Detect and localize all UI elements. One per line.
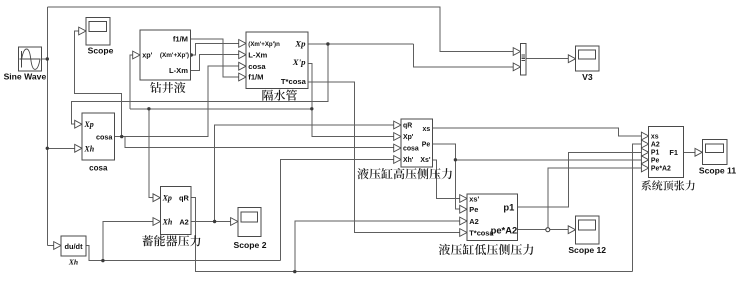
- junction A2 output: [213, 220, 216, 223]
- svg-text:Xs': Xs': [420, 157, 430, 164]
- wire Xp down-left to cosa Xp input: [71, 44, 328, 124]
- svg-text:cosa: cosa: [89, 163, 108, 172]
- label 液压缸高压侧压力: [357, 168, 452, 179]
- wire qR down and along bottom: [191, 198, 632, 272]
- arrowhead high-pressure qR input: [394, 121, 401, 129]
- arrowhead Scope 11 input: [695, 148, 702, 156]
- svg-text:Sine Wave: Sine Wave: [4, 72, 47, 82]
- svg-text:Pe: Pe: [651, 157, 660, 164]
- svg-text:cosa: cosa: [248, 62, 266, 71]
- svg-text:(Xm'+Xp')n: (Xm'+Xp')n: [248, 41, 280, 48]
- arrowhead riser input 1: [239, 40, 246, 48]
- arrowhead accumulator Xh input: [153, 218, 160, 226]
- mux block: [521, 43, 526, 75]
- arrowhead V3 input: [568, 55, 575, 63]
- junction Pe branch: [454, 158, 457, 161]
- svg-text:Xp: Xp: [162, 194, 172, 203]
- svg-text:Scope 11: Scope 11: [699, 166, 736, 176]
- svg-text:qR: qR: [403, 123, 412, 130]
- wire Xp-prime branch left: [130, 108, 312, 110]
- arrowhead Scope 2 input: [231, 218, 238, 226]
- scope block V3: [576, 46, 600, 71]
- wire A2 riser to high-pressure qR input: [215, 125, 395, 222]
- wire Xp run: [308, 43, 413, 45]
- arrowhead mux input 2: [513, 63, 520, 71]
- label 系统顶张力: [641, 180, 695, 190]
- svg-text:Pe*A2: Pe*A2: [651, 165, 671, 172]
- svg-text:L-Xm: L-Xm: [169, 66, 188, 75]
- arrowhead low-pressure T*cosa input: [460, 229, 467, 237]
- arrowhead low-pressure xs-prime input: [460, 195, 467, 203]
- arrowhead drill-fluid xp input: [133, 51, 140, 59]
- junction du/dt output: [101, 259, 104, 262]
- wire Xp-prime down to high-pressure Xp-prime input: [308, 64, 394, 137]
- svg-text:du/dt: du/dt: [64, 242, 83, 251]
- svg-text:f1/M: f1/M: [248, 73, 263, 82]
- arrowhead Scope 12 input: [568, 226, 575, 234]
- svg-text:xs': xs': [469, 194, 479, 203]
- arrowhead low-pressure A2 input: [460, 217, 467, 225]
- wire Xh-prime up to high-pressure Xh input: [281, 160, 395, 261]
- wire sine-wave output to junction: [42, 58, 48, 60]
- svg-text:Xp: Xp: [294, 39, 306, 49]
- arrowhead top-tension A2 input: [641, 140, 648, 148]
- arrowhead mux input 1: [513, 48, 520, 56]
- wire xs to top-tension xs input: [432, 128, 641, 136]
- arrowhead top-tension xs input: [641, 132, 648, 140]
- wire bottom branch to low-pressure A2 input: [295, 221, 460, 272]
- arrowhead top-tension Pe*A2 input: [641, 164, 648, 172]
- subsystem block accumulator 蓄能器压力: [160, 187, 191, 235]
- scope block Scope 2: [238, 208, 261, 237]
- arrowhead cosa Xh input: [75, 144, 82, 152]
- wire sine branch to cosa-block Xh input: [47, 147, 75, 149]
- arrowhead riser cosa input: [239, 62, 246, 70]
- arrowhead riser L-Xm input: [239, 51, 246, 59]
- junction drill-fluid mid output: [190, 53, 193, 56]
- wire cosa to high-pressure cosa input: [122, 137, 394, 148]
- wire F1 to Scope 11: [684, 151, 696, 153]
- svg-text:Xh': Xh': [403, 157, 414, 164]
- wire Xh-prime branch to accumulator Xh input: [103, 222, 154, 261]
- junction cosa output: [120, 135, 123, 138]
- wire Xp to mux input 2: [413, 44, 513, 67]
- svg-text:xp': xp': [142, 50, 152, 59]
- wire A2 to Scope 2: [191, 221, 231, 223]
- svg-text:pe*A2: pe*A2: [491, 225, 518, 236]
- svg-text:cosa: cosa: [96, 132, 113, 141]
- svg-text:Scope: Scope: [88, 46, 114, 56]
- svg-text:X'p: X'p: [292, 57, 306, 67]
- wire sine top run to mux input 1: [47, 7, 513, 52]
- arrowhead top-tension P1 input: [641, 148, 648, 156]
- wire Pe down to low-pressure Pe input: [432, 144, 460, 209]
- svg-text:Scope 12: Scope 12: [568, 245, 606, 255]
- svg-text:Xh: Xh: [68, 257, 78, 266]
- wire sine riser vertical x=47: [46, 7, 48, 246]
- wire mux output to V3: [526, 58, 569, 60]
- scope block Scope: [86, 18, 110, 46]
- arrowhead top-tension Pe input: [641, 156, 648, 164]
- arrowhead low-pressure Pe input: [460, 205, 467, 213]
- wire p1 up to top-tension P1 input: [518, 152, 642, 207]
- wire (Xm+Xp)n to riser input 1: [191, 43, 240, 55]
- arrowhead cosa Xp input: [75, 120, 82, 128]
- arrowhead Scope input: [79, 27, 86, 35]
- derivative block du/dt: [61, 236, 86, 256]
- svg-text:Xp': Xp': [403, 134, 414, 141]
- arrowhead high-pressure Xh-prime input: [394, 156, 401, 164]
- svg-text:A2: A2: [469, 217, 478, 226]
- junction Xp-prime to accumulator: [147, 107, 150, 110]
- svg-text:f1/M: f1/M: [173, 35, 188, 44]
- junction Xp output: [326, 42, 329, 45]
- wire L-Xm to riser input 2: [191, 55, 240, 71]
- wire cosa to Scope: [75, 31, 122, 137]
- svg-text:Pe: Pe: [469, 205, 478, 214]
- wire Xp-prime up to drill-fluid xp input: [130, 55, 134, 109]
- svg-text:Xh: Xh: [162, 217, 173, 226]
- svg-text:qR: qR: [179, 194, 190, 203]
- svg-text:F1: F1: [669, 148, 678, 157]
- svg-text:Scope 2: Scope 2: [234, 240, 267, 250]
- svg-text:A2: A2: [651, 141, 660, 148]
- scope block Scope 11: [702, 140, 727, 165]
- svg-text:xs: xs: [423, 126, 431, 133]
- svg-text:V3: V3: [582, 72, 593, 82]
- label 蓄能器压力: [142, 235, 200, 246]
- junction sine to Xh branch: [46, 147, 49, 150]
- wire Xs-prime to low-pressure xs input: [432, 160, 460, 199]
- svg-text:A2: A2: [179, 217, 188, 226]
- svg-text:Pe: Pe: [422, 141, 431, 148]
- svg-text:T*cosa: T*cosa: [281, 77, 307, 86]
- arrowhead du/dt input: [54, 242, 61, 250]
- wire cosa output stub: [115, 136, 122, 138]
- wire T*cosa to low-pressure T*cosa input: [308, 82, 460, 233]
- subsystem block top-tension 系统顶张力: [649, 127, 684, 178]
- svg-text:cosa: cosa: [403, 146, 419, 153]
- wire pe*A2 to Scope 12: [518, 229, 569, 231]
- wire f1/M to riser f1/M input: [191, 39, 240, 77]
- scope block Scope 12: [576, 216, 599, 244]
- subsystem block riser 隔水管: [246, 32, 308, 89]
- junction sine output: [46, 57, 49, 60]
- svg-text:Xh: Xh: [83, 144, 94, 153]
- wire bottom run up to top-tension A2 input: [632, 144, 641, 272]
- wire du/dt output bottom run: [86, 246, 281, 261]
- svg-text:P1: P1: [651, 150, 660, 157]
- arrowhead high-pressure cosa input: [394, 144, 401, 152]
- wire sine branch to du/dt input: [47, 245, 54, 247]
- label 液压缸低压侧压力: [439, 244, 534, 255]
- subsystem block drill-fluid 钻井液: [140, 30, 191, 80]
- svg-text:Xp: Xp: [83, 120, 93, 129]
- junction bottom run: [293, 270, 296, 273]
- svg-text:xs: xs: [651, 133, 659, 140]
- junction Xp-prime riser: [310, 107, 313, 110]
- label 隔水管: [262, 90, 297, 101]
- arrowhead accumulator Xp input: [153, 194, 160, 202]
- svg-text:(Xm'+Xp'): (Xm'+Xp'): [160, 52, 189, 59]
- arrowhead high-pressure Xp-prime input: [394, 133, 401, 141]
- wire pe*A2 riser to top-tension Pe*A2 input: [548, 168, 642, 230]
- wire cosa to riser-block cosa input: [122, 66, 239, 136]
- wire Pe branch to top-tension Pe input: [455, 159, 641, 161]
- arrowhead riser f1/M input: [239, 73, 246, 81]
- subsystem block cosa: [82, 113, 115, 160]
- svg-text:L-Xm: L-Xm: [248, 50, 267, 59]
- subsystem block low-pressure 液压缸低压侧压力: [467, 194, 518, 240]
- svg-text:p1: p1: [503, 201, 514, 212]
- junction pe*A2 branch (open): [546, 228, 550, 232]
- wire Xp-prime branch to accumulator Xp input: [149, 109, 154, 198]
- subsystem block high-pressure 液压缸高压侧压力: [401, 119, 432, 167]
- source block Sine Wave: [19, 47, 42, 71]
- label 钻井液: [150, 82, 185, 93]
